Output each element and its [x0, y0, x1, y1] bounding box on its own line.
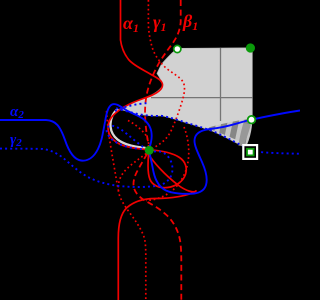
gamma1 strand eye inner [128, 121, 149, 147]
square marker [243, 145, 257, 159]
gamma2 short strand upper eye [115, 103, 147, 111]
white circle 2 [248, 116, 256, 124]
vertical gray line [220, 48, 222, 121]
white circle 1 [174, 45, 181, 52]
horizontal gray line [151, 97, 252, 99]
dark wedge under white circle [238, 123, 250, 146]
gray domain region [121, 48, 252, 147]
gamma1 strand around loop [146, 127, 189, 201]
curve alpha1 (red solid) [108, 0, 196, 300]
curve beta1 (red dashed) [133, 0, 181, 300]
green dot center [145, 146, 154, 155]
curve gamma1 (red dotted) main [118, 0, 184, 300]
gamma1 strand eye tip down [107, 111, 120, 194]
gamma2 branch along sliver bottom to square and out [116, 108, 300, 154]
eye-region upper band [124, 100, 148, 117]
eye-region light C ring [110, 109, 145, 148]
hatched sub-region [206, 118, 252, 144]
green dot top right [246, 43, 255, 52]
curve gamma2 (blue dotted) left branch [0, 126, 172, 187]
curve alpha2 (blue solid) [0, 104, 300, 194]
